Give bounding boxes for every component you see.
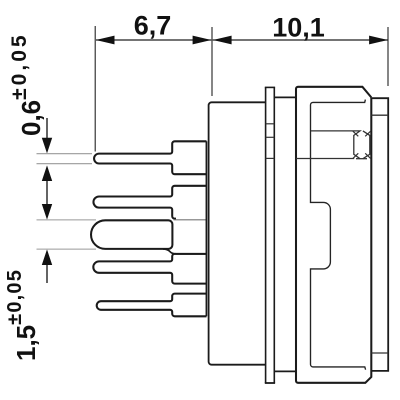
svg-text:10,1: 10,1: [272, 13, 325, 43]
hidden edge line at pin1 level: [296, 158, 354, 160]
arrowhead 0,6 up: [42, 165, 52, 181]
hex socket right half: [363, 131, 370, 159]
extension line pin3 bottom edge: [37, 248, 97, 250]
svg-text:0,6±0,05: 0,6±0,05: [8, 32, 46, 136]
gasket rib top cap: [265, 86, 275, 88]
top shelf between rib and body: [274, 96, 297, 98]
bottom shelf between rib and body: [274, 370, 297, 372]
extension line pin3 top edge: [37, 219, 97, 221]
arrowhead 10,1 right: [369, 36, 388, 45]
arrowhead 10,1 left: [213, 36, 232, 45]
rib tick 1: [266, 123, 275, 125]
arrowhead 6,7 right: [193, 36, 212, 45]
stem between 0,6 and 1,5 arrows: [46, 178, 48, 207]
hex corner tick bottom-left: [353, 153, 358, 158]
hex socket top edge: [311, 131, 360, 159]
extension line right of 10,1: [387, 27, 389, 86]
extension line pin1 bottom edge: [37, 163, 93, 165]
main body outline: [296, 87, 371, 383]
rear extension inner line bottom: [371, 352, 388, 354]
pin 3 collar bottom step: [163, 249, 207, 254]
hex socket bottom edge: [356, 158, 367, 160]
hex corner tick top-left: [353, 131, 358, 136]
extension line left of 6,7: [94, 26, 96, 152]
dimension text 1,5 +/-0,05 rotated: [4, 269, 41, 361]
inner cavity outline: [311, 100, 366, 370]
rib tick 2: [266, 136, 275, 138]
svg-text:6,7: 6,7: [134, 11, 172, 41]
pin 4: [93, 254, 206, 284]
pin 3 collar top line: [174, 219, 207, 221]
hex corner tick top-right: [365, 131, 370, 136]
gasket rib left edge: [265, 87, 267, 383]
gasket rib bottom cap: [265, 382, 275, 384]
extension line shared 6,7 / 10,1: [211, 27, 213, 96]
leader stem 1,5 lower: [46, 262, 48, 283]
svg-text:1,5±0,05: 1,5±0,05: [4, 269, 41, 361]
hex corner tick bottom-right: [365, 153, 370, 158]
pin 3 big capsule: [91, 220, 172, 249]
arrowhead 6,7 left: [96, 36, 115, 45]
arrowhead 1,5 down: [42, 204, 52, 220]
gasket rib right edge: [273, 87, 275, 383]
rib tick 3: [266, 157, 275, 159]
pin 2: [93, 186, 206, 219]
rear extension block: [371, 98, 388, 371]
leader stem 0,6 upper: [46, 118, 48, 141]
extension line pin1 top edge: [37, 153, 93, 155]
arrowhead 1,5 up: [42, 249, 52, 265]
arrowhead 0,6 down: [42, 138, 52, 154]
pin 1: [94, 141, 206, 174]
pin 5: [97, 294, 207, 317]
dimension text 0,6 +/-0,05 rotated: [8, 32, 46, 136]
dimension line 6,7: [96, 39, 211, 41]
collar face vertical line: [205, 141, 207, 316]
dimension line 10,1: [213, 39, 388, 41]
front flange outline: [209, 102, 266, 364]
rear extension inner line top: [371, 114, 388, 116]
